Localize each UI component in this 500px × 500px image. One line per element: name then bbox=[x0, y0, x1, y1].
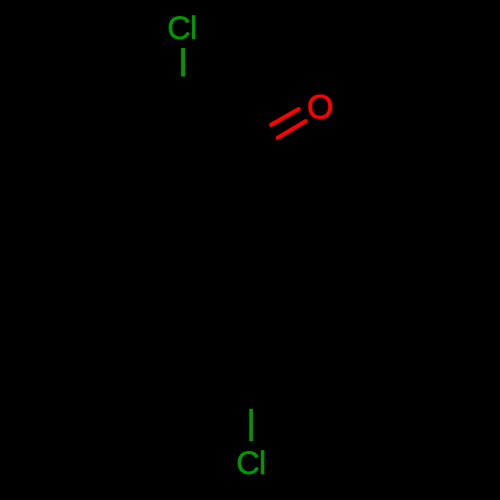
svg-text:O: O bbox=[307, 89, 333, 127]
svg-text:Cl: Cl bbox=[236, 445, 265, 481]
svg-text:Cl: Cl bbox=[167, 10, 196, 46]
